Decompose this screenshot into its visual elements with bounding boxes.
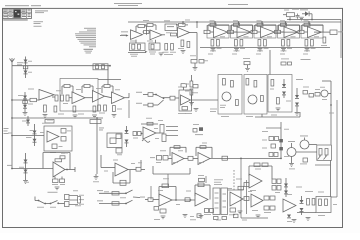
value labels U23 bbox=[250, 169, 271, 213]
wire U13 out bbox=[125, 93, 130, 118]
diode chain D21 bbox=[18, 92, 27, 115]
resistor R99 bbox=[112, 202, 119, 205]
wire coupling a bbox=[228, 31, 252, 33]
general notes text block bbox=[75, 28, 96, 47]
resistor R49 bbox=[182, 107, 188, 110]
connector marks K bbox=[99, 128, 104, 131]
bias network C1h bbox=[190, 55, 208, 70]
switch S5 bbox=[125, 200, 132, 204]
diode D17 bbox=[300, 208, 304, 215]
value labels T bbox=[154, 190, 180, 220]
input line 1 bbox=[97, 190, 126, 193]
op-amp U16 bbox=[53, 162, 65, 177]
value labels top chain bbox=[143, 20, 190, 22]
wire feedback loop U4 bbox=[232, 25, 253, 32]
resistor R55 bbox=[223, 79, 226, 86]
resistor R83 bbox=[163, 156, 168, 161]
resistor R10 bbox=[187, 42, 190, 48]
value labels N bbox=[104, 191, 126, 198]
capacitor C1 pair bbox=[165, 44, 174, 51]
junction bus bbox=[108, 65, 111, 85]
module rectangle H2 bbox=[244, 75, 267, 115]
capacitor C7g pair bbox=[305, 40, 313, 47]
transistor Q4 bbox=[287, 141, 296, 157]
value labels P right bbox=[284, 129, 289, 157]
switch S2 bbox=[38, 200, 47, 205]
resistor R59 bbox=[246, 79, 249, 86]
switch S1b bbox=[158, 97, 164, 105]
op-amp U2A bbox=[178, 28, 190, 38]
bottom return loop M bbox=[153, 166, 190, 174]
resistor R88 bbox=[275, 137, 279, 141]
ground G24 bbox=[306, 218, 311, 221]
value labels U15 bbox=[40, 120, 56, 153]
wire bus drop U6 bbox=[285, 21, 287, 25]
resistor R86 bbox=[136, 160, 145, 171]
wire U16 out bbox=[65, 167, 75, 172]
ground G4g bbox=[234, 49, 239, 52]
resistor R48 feedback bbox=[181, 84, 187, 90]
lower rail under stages bbox=[200, 47, 330, 49]
resistor R7 bbox=[171, 33, 177, 36]
ground G14 bbox=[92, 115, 97, 118]
resistor R98 bbox=[112, 192, 119, 195]
value labels U3 bbox=[210, 20, 226, 51]
top boxes U21 bbox=[198, 175, 205, 181]
model number text bbox=[84, 49, 94, 54]
resistor R43 bbox=[98, 105, 101, 111]
resistor R56 bbox=[231, 81, 234, 88]
value labels V bbox=[285, 191, 337, 216]
resistor R74 bbox=[110, 138, 116, 144]
value labels loop U1A bbox=[130, 54, 138, 57]
diode D33 bbox=[284, 178, 288, 197]
value labels stage row bbox=[208, 53, 308, 56]
wire P vertical bbox=[280, 122, 282, 158]
value labels U5 bbox=[257, 20, 273, 51]
value labels J1 area bbox=[45, 122, 68, 153]
resistor R85 on rail bbox=[222, 156, 228, 160]
bottom marks U21 bbox=[214, 217, 227, 220]
resistor R45 on rail bbox=[45, 120, 54, 124]
output rectangle bbox=[316, 197, 331, 213]
wire x97 down bbox=[96, 117, 98, 174]
value labels U16 bbox=[52, 183, 65, 186]
capacitor C6g pair bbox=[282, 40, 290, 47]
diode D16 bbox=[300, 196, 304, 203]
switch chain wire bbox=[35, 197, 65, 204]
value labels E mid bbox=[56, 88, 120, 104]
resistor R100 bbox=[148, 198, 159, 202]
resistor R3i input bbox=[204, 30, 214, 33]
wire U2A out down bbox=[190, 21, 198, 59]
stage rectangle 1 bbox=[44, 126, 72, 151]
right vertical U22 bbox=[246, 180, 248, 214]
ground G3g bbox=[211, 49, 216, 52]
resistor R6f feedback bbox=[281, 23, 287, 26]
resistor R37 bbox=[44, 105, 47, 112]
ground G13 bbox=[73, 115, 78, 118]
capacitor C10 bbox=[296, 14, 300, 19]
op-amp U1A bbox=[131, 30, 143, 40]
resistor R4i input bbox=[228, 30, 238, 33]
op-amp U18A bbox=[172, 153, 184, 165]
output network U16 bbox=[53, 177, 65, 190]
title block frame bbox=[3, 9, 32, 19]
diode D13 bbox=[125, 140, 129, 148]
tap junction C bbox=[11, 168, 13, 170]
matrix boxes U23 bbox=[272, 179, 281, 190]
diode D34 bbox=[287, 215, 291, 218]
jumper note text bbox=[34, 25, 42, 28]
value labels U6 bbox=[280, 20, 296, 51]
wire bus drop U4 bbox=[238, 21, 240, 25]
input marks T bbox=[140, 197, 148, 200]
filter block FL1 bbox=[165, 24, 178, 31]
diode D1 bbox=[302, 11, 312, 19]
switch S1a bbox=[155, 94, 162, 98]
wire merged path bbox=[162, 97, 170, 99]
transistor Q2 bbox=[248, 95, 257, 104]
transistor Q3 bbox=[321, 90, 328, 97]
title block grid bbox=[3, 9, 32, 19]
wire bus tap U2A bbox=[182, 21, 184, 25]
top mini cluster 1 bbox=[243, 58, 250, 71]
switch labels bbox=[37, 206, 56, 209]
resistor R5f feedback bbox=[257, 23, 263, 26]
resistor R66b bbox=[315, 89, 320, 96]
op-amp U1B bbox=[150, 30, 162, 40]
tap junction A bbox=[11, 99, 13, 101]
op-amp U11 bbox=[72, 92, 85, 104]
resistor R7i input bbox=[298, 30, 308, 33]
value labels U19 area bbox=[113, 160, 135, 164]
pot block rectangle 2 bbox=[221, 188, 228, 215]
value labels power cluster bbox=[284, 9, 308, 11]
ground G4 bbox=[181, 51, 186, 54]
wire feedback loop U6 bbox=[279, 25, 300, 32]
resistor R87 bbox=[269, 137, 274, 141]
value labels C1 bbox=[163, 52, 177, 55]
value labels right mid bbox=[296, 59, 334, 113]
wire y212 link bbox=[297, 212, 316, 214]
resistor R61 bbox=[261, 96, 264, 102]
diode D8 bbox=[22, 116, 30, 126]
ground G10 bbox=[299, 17, 304, 20]
value labels L bbox=[154, 113, 192, 139]
module rectangle H3 bbox=[268, 75, 292, 113]
wire U11 out bbox=[85, 97, 93, 99]
op-amp U4 bbox=[231, 26, 253, 39]
output rail y158 bbox=[210, 158, 282, 160]
function box left edge bbox=[241, 158, 268, 218]
value labels U17 area bbox=[133, 118, 163, 139]
value labels H3 bbox=[270, 89, 291, 102]
diode chain D23 bbox=[19, 153, 29, 183]
op-amp U24 bbox=[283, 199, 296, 212]
value labels V upper bbox=[275, 187, 324, 193]
op-amp U3 bbox=[207, 26, 229, 39]
switch label text bbox=[48, 191, 58, 194]
label text left E bbox=[28, 89, 34, 105]
sheet header text top-left bbox=[5, 5, 41, 6]
resistor R118 bbox=[270, 196, 275, 200]
wire U10 out bbox=[52, 96, 55, 98]
value labels H lower bbox=[221, 115, 277, 117]
resistor R6i input bbox=[275, 30, 285, 33]
signal path 1 bbox=[136, 92, 156, 96]
bottom marks U23 bbox=[234, 214, 239, 218]
wire rail taps bbox=[289, 17, 313, 21]
op-amp U15 bbox=[47, 131, 59, 142]
diode D5 bbox=[282, 79, 286, 98]
resistor R5i input bbox=[251, 30, 261, 33]
resistor R77 feedback bbox=[141, 122, 158, 125]
resistor R40 bbox=[93, 106, 96, 112]
coupling network E1 bbox=[55, 95, 72, 101]
top bus wire bbox=[128, 21, 341, 23]
resistor R38 bbox=[54, 106, 57, 112]
op-amp U14 bbox=[181, 95, 191, 105]
value labels U20 area bbox=[163, 178, 191, 191]
resistor R67 bbox=[61, 129, 71, 134]
function block rectangle bbox=[60, 79, 98, 112]
resistor R22 bbox=[283, 13, 295, 17]
diode D6 bbox=[295, 88, 299, 98]
amp block rectangle U14 bbox=[179, 90, 192, 111]
bus network box bbox=[93, 64, 108, 70]
resistor R125 bbox=[319, 199, 322, 206]
wire bus drop U5 bbox=[261, 21, 263, 25]
resistor R103 bbox=[185, 198, 190, 202]
dashed control line bbox=[233, 170, 235, 190]
resistor R57 bbox=[236, 100, 239, 106]
value labels U22 bbox=[236, 179, 252, 192]
wire join switches bbox=[133, 196, 140, 199]
transistor Q5 bbox=[300, 136, 309, 150]
loop network U1B bbox=[149, 40, 160, 50]
value labels N lower bbox=[104, 170, 108, 173]
power rail segment bbox=[287, 19, 341, 21]
resistor R4f feedback bbox=[234, 23, 240, 26]
feedback boxes U23A bbox=[249, 163, 272, 179]
resistor R80 bbox=[162, 134, 166, 142]
resistor R89 bbox=[271, 144, 276, 148]
wire right long vertical bbox=[330, 94, 332, 145]
feedback loop U16 bbox=[43, 153, 70, 170]
connector stack R bbox=[65, 195, 70, 207]
diode D4 bbox=[282, 84, 286, 87]
top mini cluster 2 bbox=[270, 50, 292, 75]
diode D31 bbox=[279, 147, 283, 150]
driver rectangle bbox=[317, 145, 332, 160]
left column H bbox=[185, 75, 194, 105]
wire bus drop U3 bbox=[214, 21, 216, 25]
capacitor C5g pair bbox=[258, 40, 266, 47]
resistor R119 bbox=[264, 206, 269, 210]
wire U14 out bbox=[192, 99, 219, 101]
drawing number text bbox=[35, 10, 48, 13]
value labels U4 bbox=[233, 20, 249, 51]
switch S3 bbox=[50, 201, 60, 205]
wire tap y135 bbox=[8, 133, 44, 136]
resistor R2 feedback U1A bbox=[136, 25, 147, 35]
diode chain D20 bbox=[23, 57, 32, 79]
transistor Q1 bbox=[222, 92, 231, 101]
text above pots bbox=[214, 179, 223, 185]
sheet header text top-right-of-middle bbox=[228, 3, 248, 6]
title block cell text bbox=[4, 10, 31, 18]
capacitor C4g pair bbox=[235, 40, 243, 47]
value labels M bbox=[173, 143, 207, 163]
op-amp U20 bbox=[159, 194, 172, 206]
wire U17 out bbox=[156, 132, 160, 134]
op-amp U5 bbox=[254, 26, 276, 39]
resistor R36 bbox=[30, 98, 39, 101]
ground G5g bbox=[258, 49, 263, 52]
ground G18 bbox=[276, 108, 281, 111]
coupling parts K bbox=[133, 132, 142, 136]
op-amp U6 bbox=[278, 26, 300, 39]
wire far right vertical bbox=[336, 100, 338, 197]
resistor R7f feedback bbox=[304, 23, 310, 26]
wire N input bbox=[101, 167, 115, 169]
sheet header text top-middle bbox=[114, 3, 142, 6]
resistor R62 bbox=[271, 80, 274, 87]
resistor R120 bbox=[270, 206, 275, 210]
op-amp U23A bbox=[249, 174, 262, 188]
loop network U1A bbox=[130, 40, 146, 51]
left bus wire vertical bbox=[11, 58, 13, 169]
resistor R46 bbox=[170, 96, 179, 100]
resistor R8 feedback bbox=[176, 23, 188, 26]
input arrow and label bbox=[120, 31, 129, 36]
diode chain D22 bbox=[26, 124, 37, 146]
wire bus drop U7 bbox=[308, 21, 310, 25]
bottom row marks bbox=[183, 214, 201, 218]
wire Q pair link bbox=[296, 145, 317, 153]
resistor R63 bbox=[277, 98, 280, 105]
stub wires L bbox=[166, 127, 178, 136]
wire far right join bbox=[331, 196, 337, 198]
wire M in bbox=[168, 157, 172, 159]
wire pickup arrow bbox=[128, 51, 148, 53]
resistor R35b feedback U13 bbox=[102, 85, 113, 94]
resistor R45b on rail bbox=[90, 120, 101, 124]
resistor R78 bbox=[160, 125, 164, 134]
resistor R91 bbox=[274, 153, 278, 157]
output network box bbox=[321, 30, 343, 46]
op-amp U19 bbox=[115, 163, 128, 176]
wire U19 out bbox=[128, 169, 136, 171]
wire coupling c bbox=[314, 31, 330, 33]
tap junction B bbox=[11, 135, 13, 137]
value labels Q3 row bbox=[320, 87, 327, 100]
wire right bus end bbox=[340, 20, 342, 59]
value labels U7 bbox=[304, 20, 320, 51]
resistor R48b bbox=[193, 85, 198, 88]
ground G15 bbox=[112, 115, 117, 118]
wire U1B out bbox=[162, 34, 165, 36]
resistor R69 bbox=[52, 144, 63, 149]
resistor R117 bbox=[264, 196, 269, 200]
op-amp U18B bbox=[198, 153, 210, 165]
op-amp U21 bbox=[195, 193, 208, 206]
value labels row E bbox=[42, 109, 122, 124]
value labels P bbox=[262, 131, 268, 148]
feedback U18A bbox=[170, 146, 186, 156]
wire y165 link bbox=[315, 164, 331, 166]
below boxes U21 bbox=[199, 209, 214, 219]
feedback U18B bbox=[196, 146, 212, 159]
resistor R115 bbox=[244, 183, 249, 187]
title block logo bbox=[14, 9, 21, 17]
resistor R66 bbox=[309, 94, 314, 98]
arrow into R96 bbox=[324, 155, 327, 159]
wire feedback loop U3 bbox=[208, 25, 229, 32]
resistor R116 bbox=[244, 197, 249, 201]
antenna input symbol bbox=[10, 59, 24, 66]
wire tap y168 bbox=[7, 165, 53, 169]
feedback box U22 bbox=[228, 186, 244, 190]
value labels M upper bbox=[160, 149, 183, 152]
resistor R9 bbox=[178, 40, 184, 49]
coupling R84 bbox=[184, 156, 198, 160]
op-amp U23B bbox=[251, 194, 263, 207]
op-amp U22 bbox=[230, 192, 243, 206]
value labels U22 area bbox=[228, 187, 232, 190]
value labels U14 bbox=[178, 87, 198, 114]
wire Q4 emitter bbox=[289, 157, 295, 170]
wire Q3 collector loop bbox=[322, 81, 331, 94]
resistor R60 bbox=[254, 81, 257, 88]
wire N verticals bbox=[93, 155, 101, 182]
signal path 2 bbox=[136, 103, 158, 107]
resistor R4 coupling bbox=[143, 31, 151, 34]
pot block rectangle 1 bbox=[213, 188, 220, 215]
connector labels bbox=[73, 190, 84, 204]
resistor R65 bbox=[303, 87, 309, 94]
diode D30 bbox=[279, 139, 283, 142]
op-amp U17 bbox=[143, 127, 156, 139]
resistor R124 bbox=[312, 199, 315, 206]
left edge text bbox=[4, 128, 9, 134]
resistor R5 feedback U1B bbox=[145, 23, 156, 30]
ground G23 bbox=[292, 220, 297, 223]
feedback U21 bbox=[195, 183, 210, 200]
wire tap y100 bbox=[12, 99, 30, 101]
wire U12 out bbox=[105, 96, 112, 98]
value labels bottom row bbox=[190, 219, 292, 221]
op-amp U12 bbox=[93, 91, 105, 103]
resistor R92 bbox=[300, 158, 308, 164]
feedback loop U19 bbox=[113, 170, 130, 185]
interface rectangle K bbox=[107, 133, 122, 148]
resistor R72 bbox=[60, 153, 65, 159]
input bus wire bbox=[12, 65, 110, 67]
wire feedback loop U5 bbox=[255, 25, 276, 32]
clip indicator bbox=[142, 140, 150, 143]
resistor R82 bbox=[150, 156, 162, 163]
value labels mid bbox=[130, 32, 172, 41]
wire feedback loop U7 bbox=[302, 25, 323, 32]
ground G19 bbox=[295, 113, 300, 116]
ground G25 bbox=[256, 215, 261, 218]
resistor R76 bbox=[116, 148, 122, 155]
rail y118 bbox=[11, 117, 103, 119]
ground G12 bbox=[43, 115, 48, 118]
diode D32 bbox=[284, 184, 288, 187]
